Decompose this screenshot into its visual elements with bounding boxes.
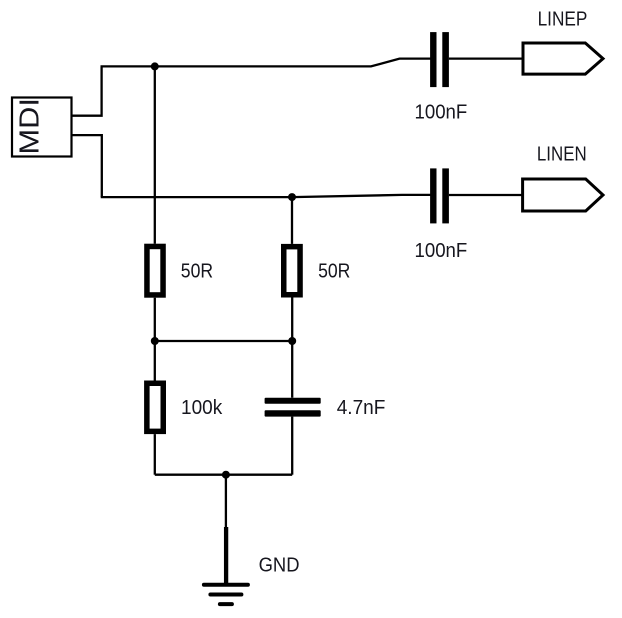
- wire resistor 50R (left) to mid rail: [154, 298, 156, 341]
- connector MDI: [12, 98, 72, 157]
- svg-text:LINEP: LINEP: [538, 8, 588, 31]
- wire mid rail to resistor 100k: [154, 341, 156, 381]
- ground: [204, 527, 248, 604]
- svg-text:4.7nF: 4.7nF: [337, 396, 386, 419]
- svg-text:50R: 50R: [181, 260, 213, 283]
- wire capacitor 4.7nF to bottom rail: [291, 417, 293, 475]
- svg-text:LINEN: LINEN: [537, 143, 587, 166]
- wire LINEN junction down to resistor 50R (right): [291, 197, 293, 244]
- wire top rail to capacitor: [101, 59, 431, 67]
- svg-text:100k: 100k: [181, 396, 223, 419]
- wire resistor 100k to bottom rail: [154, 434, 156, 475]
- capacitor 4.7nF: [265, 398, 321, 417]
- svg-text:100nF: 100nF: [415, 239, 468, 262]
- svg-text:MDI: MDI: [14, 98, 45, 155]
- resistor 50R (right): [284, 247, 300, 295]
- wire top junction down to resistor 50R (left): [154, 66, 156, 243]
- junction node on LINEN rail: [288, 193, 296, 201]
- wire resistor 50R (right) to mid rail: [291, 298, 293, 342]
- wire MDI pin 2 to bottom rail: [72, 135, 102, 197]
- svg-text:100nF: 100nF: [415, 101, 468, 124]
- wire mid rail to capacitor 4.7nF: [291, 341, 293, 398]
- junction node mid rail right: [288, 337, 296, 345]
- wire capacitor to LINEP port: [449, 57, 523, 59]
- resistor 50R (left): [147, 246, 163, 295]
- wire bottom rail: [155, 474, 292, 476]
- junction node mid rail left: [151, 337, 159, 345]
- resistor 100k: [147, 383, 163, 431]
- capacitor 100nF (LINEP coupling): [430, 32, 449, 87]
- junction node bottom rail: [222, 471, 230, 479]
- junction node on top rail: [151, 62, 159, 70]
- port LINEN: [523, 179, 603, 211]
- port LINEP: [523, 43, 603, 74]
- svg-text:50R: 50R: [318, 260, 350, 283]
- wire LINEN rail to capacitor: [101, 195, 431, 197]
- wire capacitor to LINEN port: [449, 194, 523, 196]
- wire MDI pin 1 to top rail: [72, 66, 102, 115]
- wire mid rail: [155, 340, 292, 342]
- capacitor 100nF (LINEN coupling): [430, 168, 449, 223]
- svg-text:GND: GND: [259, 554, 300, 577]
- wire junction to ground lead: [225, 475, 227, 527]
